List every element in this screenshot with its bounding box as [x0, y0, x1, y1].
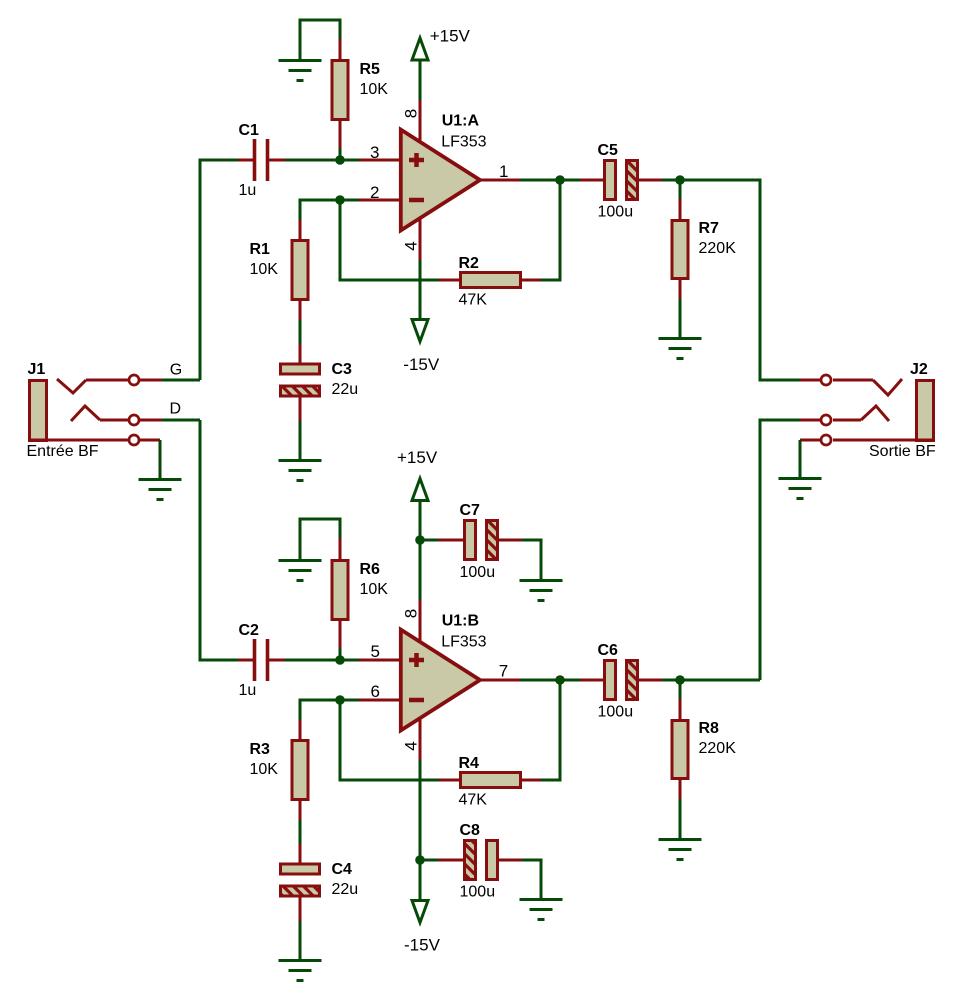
svg-text:1u: 1u	[239, 682, 257, 699]
connector J1	[27, 361, 129, 460]
C1 pin right stub	[269, 159, 285, 162]
capacitor C1	[239, 122, 268, 199]
wire C3 to ground	[299, 421, 302, 460]
svg-text:22u: 22u	[332, 881, 359, 898]
wire R4 to output node	[541, 680, 560, 780]
op-amp pin 2 stub	[359, 199, 400, 202]
pin number 8 (U1:A)	[402, 109, 421, 118]
svg-text:1: 1	[499, 162, 508, 181]
svg-text:100u: 100u	[460, 564, 496, 581]
capacitor C6	[580, 642, 662, 721]
svg-text:LF353: LF353	[441, 634, 486, 651]
svg-text:-15V: -15V	[404, 936, 441, 955]
wire R3 top to node pin6	[300, 700, 359, 720]
junction C5/R7	[675, 175, 685, 185]
wire output B node to bus	[680, 679, 760, 682]
svg-text:8: 8	[402, 109, 421, 118]
ground below C3	[279, 461, 322, 481]
R2 pin right stub	[522, 279, 541, 282]
svg-text:U1:A: U1:A	[442, 113, 480, 130]
ground J1	[139, 480, 182, 500]
svg-text:100u: 100u	[598, 704, 634, 721]
svg-text:6: 6	[371, 682, 380, 701]
ground J2	[779, 479, 822, 499]
svg-text:R2: R2	[459, 255, 480, 272]
J1 tip pin stub	[140, 379, 162, 382]
svg-text:R4: R4	[459, 755, 480, 772]
power +15V (B)	[397, 448, 438, 501]
wire node to C5	[560, 179, 580, 182]
junction -15V/C8	[415, 855, 425, 865]
wire +15V node up to arrow	[419, 500, 422, 540]
ground above R6	[279, 561, 322, 581]
svg-text:R8: R8	[699, 720, 720, 737]
svg-text:R7: R7	[699, 220, 720, 237]
svg-text:Entrée BF: Entrée BF	[27, 443, 99, 460]
ground C7	[520, 581, 563, 601]
capacitor C5	[580, 142, 662, 221]
capacitor C8	[438, 822, 522, 901]
wire R7 to ground	[679, 299, 682, 338]
R2 pin left stub	[439, 279, 459, 282]
resistor R4	[459, 755, 521, 809]
wire node to C7	[420, 539, 438, 542]
svg-text:LF353: LF353	[441, 134, 486, 151]
pin number 3	[370, 143, 379, 162]
op-amp pin 1 stub	[480, 179, 520, 182]
R6 pin bottom stub	[339, 621, 342, 648]
R3 pin top stub	[299, 720, 302, 739]
svg-text:220K: 220K	[699, 740, 737, 757]
R1 pin bottom stub	[299, 301, 302, 320]
wire J2 sleeve to ground	[799, 440, 802, 478]
svg-text:4: 4	[402, 241, 421, 250]
wire pin4 to -15V	[419, 260, 422, 318]
svg-text:J2: J2	[910, 361, 928, 378]
wire node down to R8	[679, 680, 682, 699]
op-amp pin 5 stub	[359, 659, 400, 662]
resistor R6	[332, 561, 388, 620]
svg-text:1u: 1u	[239, 182, 257, 199]
op-amp pin 4 stub (B)	[419, 717, 422, 760]
svg-text:C5: C5	[598, 142, 619, 159]
svg-text:C6: C6	[598, 642, 619, 659]
svg-text:R6: R6	[360, 561, 381, 578]
wire ground to R5 top elbow	[300, 20, 340, 60]
svg-text:D: D	[170, 401, 182, 418]
pin number 7	[499, 662, 508, 681]
C2 pin left stub	[238, 659, 253, 662]
svg-text:Sortie BF: Sortie BF	[869, 443, 936, 460]
wire node to pin3	[340, 159, 359, 162]
junction node pin3	[335, 155, 345, 165]
wire C6 to node R8	[662, 679, 680, 682]
R1 pin top stub	[299, 220, 302, 239]
svg-text:100u: 100u	[598, 204, 634, 221]
terminal J2 ring	[821, 415, 831, 425]
wire pin2 node down to R2	[340, 200, 439, 280]
terminal J1 tip	[129, 375, 139, 385]
wire node to C6	[560, 679, 580, 682]
svg-text:10K: 10K	[250, 261, 279, 278]
resistor R1	[250, 241, 309, 300]
pin number 4 (U1:A)	[402, 241, 421, 250]
R4 pin left stub	[439, 779, 459, 782]
capacitor C4	[281, 844, 359, 921]
wire J1 sleeve to ground	[159, 440, 162, 479]
C2 pin right stub	[269, 659, 285, 662]
J1 sleeve pin stub	[140, 439, 160, 442]
resistor R8	[672, 720, 736, 779]
net label G	[170, 362, 182, 379]
svg-text:G: G	[170, 362, 182, 379]
svg-text:4: 4	[402, 741, 421, 750]
svg-text:C4: C4	[332, 861, 353, 878]
svg-text:22u: 22u	[332, 381, 359, 398]
R6 pin top stub	[339, 538, 342, 559]
svg-text:10K: 10K	[250, 761, 279, 778]
R3 pin bottom stub	[299, 801, 302, 820]
J2 ring pin stub	[800, 419, 820, 422]
svg-text:C2: C2	[239, 622, 260, 639]
terminal J1 ring	[129, 415, 139, 425]
op-amp pin 4 stub	[419, 217, 422, 260]
wire R2 to output node	[541, 180, 560, 280]
power -15V (A)	[403, 320, 440, 375]
wire G to vertical	[162, 379, 200, 382]
svg-text:+15V: +15V	[430, 27, 471, 46]
wire pin6 node down to R4	[340, 700, 439, 780]
svg-text:100u: 100u	[460, 884, 496, 901]
svg-text:5: 5	[371, 642, 380, 661]
wire C5 to node R7	[662, 179, 680, 182]
wire output A to J2 tip	[680, 180, 800, 380]
ground below R8	[659, 840, 702, 860]
svg-text:C8: C8	[460, 822, 481, 839]
wire R1 to C3	[299, 320, 302, 344]
wire R1 top to node pin2	[300, 200, 359, 220]
resistor R7	[672, 220, 736, 279]
R5 pin bottom stub	[339, 121, 342, 148]
wire node to pin5	[340, 659, 359, 662]
wire output A to node	[520, 179, 560, 182]
wire pin8 to +15V	[419, 60, 422, 100]
wire J1-G up to C1	[200, 160, 238, 380]
J1 ring pin stub	[140, 419, 162, 422]
pin number 6	[371, 682, 380, 701]
power -15V (B)	[404, 901, 441, 955]
svg-text:C7: C7	[460, 502, 481, 519]
svg-text:R1: R1	[250, 241, 271, 258]
svg-text:2: 2	[370, 183, 379, 202]
svg-text:10K: 10K	[360, 581, 389, 598]
junction node pin6	[335, 695, 345, 705]
svg-text:3: 3	[370, 143, 379, 162]
pin number 8 (U1:B)	[402, 609, 421, 618]
wire node down to R7	[679, 180, 682, 199]
R8 pin top stub	[679, 699, 682, 719]
junction output B	[555, 675, 565, 685]
resistor R2	[459, 255, 521, 309]
svg-text:U1:B: U1:B	[442, 613, 479, 630]
wire output B to J2 ring	[760, 420, 800, 680]
svg-text:+15V: +15V	[397, 448, 438, 467]
wire C7 to ground	[522, 540, 541, 580]
junction node pin5	[335, 655, 345, 665]
R4 pin right stub	[522, 779, 541, 782]
svg-text:C3: C3	[332, 361, 353, 378]
wire ground to R6 top elbow	[300, 519, 340, 560]
pin number 2	[370, 183, 379, 202]
pin number 1	[499, 162, 508, 181]
terminal J2 tip	[821, 375, 831, 385]
wire -15V node down to arrow	[419, 860, 422, 900]
op-amp pin 8 stub	[419, 100, 422, 143]
terminal J2 sleeve	[821, 435, 831, 445]
wire C2 to node 5	[285, 659, 340, 662]
C1 pin left stub	[238, 159, 253, 162]
op-amp pin 3 stub	[359, 159, 400, 162]
wire pin8 to +15V node	[419, 540, 422, 600]
R5 pin top stub	[339, 39, 342, 59]
svg-text:7: 7	[499, 662, 508, 681]
svg-text:47K: 47K	[459, 792, 488, 809]
svg-text:10K: 10K	[360, 81, 389, 98]
op-amp pin 6 stub	[359, 699, 400, 702]
op-amp U1:A	[401, 113, 487, 231]
wire node to C8	[420, 859, 438, 862]
junction +15V/C7	[415, 535, 425, 545]
wire J1-D down to C2	[200, 420, 238, 660]
junction node pin2	[335, 195, 345, 205]
svg-text:220K: 220K	[699, 240, 737, 257]
wire R8 to ground	[679, 799, 682, 839]
svg-text:-15V: -15V	[403, 355, 440, 374]
connector J2	[833, 361, 936, 460]
wire R5 bottom to node 3	[339, 148, 342, 160]
svg-text:8: 8	[402, 609, 421, 618]
power +15V (A)	[412, 27, 471, 61]
wire R3 to C4	[299, 820, 302, 844]
op-amp pin 8 stub (B)	[419, 600, 422, 643]
resistor R3	[250, 741, 309, 800]
capacitor C3	[281, 344, 359, 421]
op-amp pin 7 stub	[480, 679, 520, 682]
ground above R5	[279, 61, 322, 81]
wire C8 to ground	[522, 860, 541, 899]
R7 pin top stub	[679, 199, 682, 219]
ground C8	[520, 900, 563, 920]
ground below C4	[279, 961, 322, 981]
resistor R5	[332, 61, 388, 120]
R7 pin bottom stub	[679, 280, 682, 299]
svg-text:R5: R5	[360, 61, 381, 78]
R8 pin bottom stub	[679, 780, 682, 799]
svg-text:47K: 47K	[459, 292, 488, 309]
capacitor C7	[438, 502, 522, 581]
capacitor C2	[239, 622, 268, 699]
ground below R7	[659, 339, 702, 359]
wire C4 to ground	[299, 921, 302, 960]
terminal J1 sleeve	[129, 435, 139, 445]
J2 tip pin stub	[800, 379, 820, 382]
wire pin4 to -15V node	[419, 760, 422, 860]
wire D to vertical	[162, 419, 200, 422]
wire C1 to node 3	[285, 159, 340, 162]
junction output A	[555, 175, 565, 185]
pin number 5	[371, 642, 380, 661]
svg-text:J1: J1	[28, 361, 46, 378]
net label D	[170, 401, 182, 418]
J2 sleeve pin stub	[800, 439, 820, 442]
svg-text:C1: C1	[239, 122, 260, 139]
wire R6 bottom to node 5	[339, 648, 342, 660]
wire output B to node	[520, 679, 560, 682]
pin number 4 (U1:B)	[402, 741, 421, 750]
junction C6/R8	[675, 675, 685, 685]
svg-text:R3: R3	[250, 741, 271, 758]
op-amp U1:B	[401, 613, 487, 731]
